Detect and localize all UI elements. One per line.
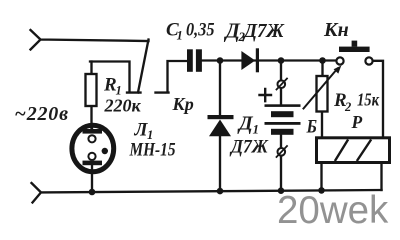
svg-text:Кн: Кн xyxy=(323,19,349,41)
svg-text:Кр: Кр xyxy=(172,94,194,114)
svg-text:Д7Ж: Д7Ж xyxy=(229,137,268,158)
svg-text:220к: 220к xyxy=(104,96,142,116)
svg-text:Д7Ж: Д7Ж xyxy=(242,20,285,42)
svg-text:Б: Б xyxy=(306,117,317,138)
svg-text:0,35: 0,35 xyxy=(186,21,215,41)
svg-text:~220в: ~220в xyxy=(15,103,69,125)
svg-text:1: 1 xyxy=(177,29,183,43)
svg-text:1: 1 xyxy=(253,122,260,137)
svg-text:2: 2 xyxy=(344,100,351,114)
svg-text:Д: Д xyxy=(237,113,254,135)
svg-text:Р: Р xyxy=(351,112,363,132)
svg-text:20wek: 20wek xyxy=(277,189,389,232)
svg-text:МН-15: МН-15 xyxy=(129,140,176,161)
svg-text:15к: 15к xyxy=(357,90,380,110)
